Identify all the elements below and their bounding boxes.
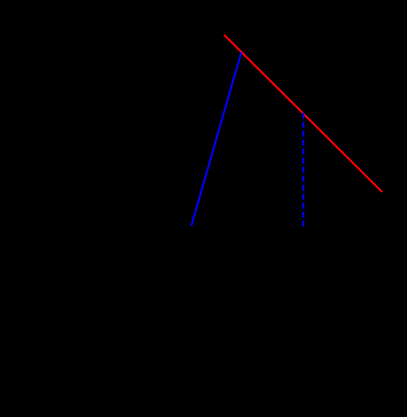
red line (downward sloping curve) [224,35,382,192]
blue solid line (steep segment) [191,52,241,226]
blue dashed vertical drop line [302,113,304,227]
